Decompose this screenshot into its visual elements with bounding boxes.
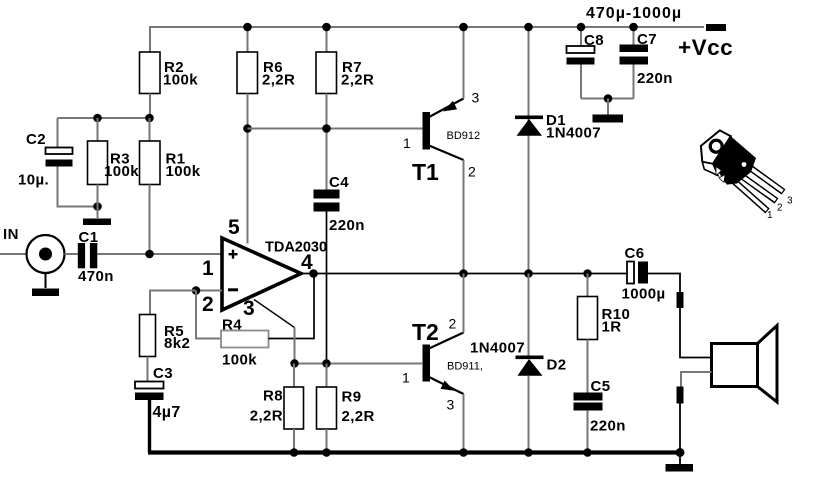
label T2 pin 1 <box>402 370 410 386</box>
svg-text:3: 3 <box>787 196 793 207</box>
transistor T2 BD911 <box>412 319 483 394</box>
node C1/R1 junction <box>145 250 154 259</box>
svg-text:C7: C7 <box>637 31 657 48</box>
svg-text:TDA2030: TDA2030 <box>265 240 327 256</box>
svg-text:2,2R: 2,2R <box>262 72 295 89</box>
svg-text:C2: C2 <box>26 131 46 148</box>
node C8/C7 ground junction <box>604 94 613 103</box>
svg-text:1N4007: 1N4007 <box>546 125 601 142</box>
capacitor C7 <box>620 27 673 99</box>
label +Vcc <box>678 35 733 60</box>
svg-text:1: 1 <box>202 257 214 280</box>
svg-text:T2: T2 <box>412 319 439 345</box>
svg-text:100k: 100k <box>222 352 257 369</box>
svg-text:2: 2 <box>468 164 476 180</box>
node T1 rail <box>459 23 468 32</box>
node R9 bottom rail <box>322 448 331 457</box>
node D1 output line <box>524 269 533 278</box>
svg-text:1N4007: 1N4007 <box>470 340 525 357</box>
svg-text:3: 3 <box>472 90 480 106</box>
svg-text:220n: 220n <box>637 70 673 87</box>
wire T2 base line <box>295 363 424 365</box>
label op-amp pin 3 <box>243 297 255 320</box>
wire C1 to op-amp pin1 <box>97 253 222 255</box>
label T2 pin 3 <box>447 397 455 413</box>
wire bias line y=118 <box>58 117 150 119</box>
capacitor C1 <box>78 229 114 285</box>
TO-220 package picture <box>701 130 784 211</box>
resistor R7 <box>316 27 374 94</box>
resistor R6 <box>237 27 295 94</box>
node R7 top rail <box>322 23 331 32</box>
svg-text:C1: C1 <box>79 229 99 246</box>
wire C3 to ground rail (thick) <box>148 400 151 453</box>
label op-amp pin 5 <box>228 216 240 239</box>
svg-text:1: 1 <box>402 370 410 386</box>
svg-text:R4: R4 <box>222 317 242 334</box>
label T2 pin 2 <box>449 316 457 332</box>
node speaker return rail <box>676 448 685 457</box>
svg-text:1R: 1R <box>602 319 622 336</box>
op-amp U1 TDA2030 <box>222 238 327 310</box>
wire C8/C7 common <box>581 98 634 100</box>
speaker LS1 <box>712 326 778 403</box>
node output at op-amp <box>309 269 318 278</box>
diode D1 1N4007 <box>515 112 601 142</box>
ground bar below R3 <box>83 219 111 226</box>
wire R4 right to output node <box>269 274 315 339</box>
svg-text:3: 3 <box>243 297 255 320</box>
svg-text:1: 1 <box>767 210 773 221</box>
wire D1 branch <box>528 27 530 274</box>
node R3 top <box>93 114 102 123</box>
node R7/C4 line on T1 base line <box>322 124 331 133</box>
node C5 rail <box>583 448 592 457</box>
capacitor C8 <box>567 27 604 99</box>
label package pin 3 <box>787 196 793 207</box>
label op-amp pin 1 <box>202 257 214 280</box>
node T1 base line left <box>243 124 252 133</box>
svg-text:D2: D2 <box>547 357 567 374</box>
wire R2 bottom <box>149 94 151 119</box>
speaker terminal bar bottom <box>677 387 684 404</box>
svg-text:R9: R9 <box>342 389 362 406</box>
svg-text:2,2R: 2,2R <box>342 408 375 425</box>
svg-text:T1: T1 <box>412 159 439 185</box>
label op-amp pin 4 <box>301 251 313 274</box>
wire ground stub R3 <box>97 207 99 219</box>
wire T1 base line <box>248 128 424 130</box>
svg-text:C6: C6 <box>625 245 645 262</box>
svg-text:C8: C8 <box>584 32 604 49</box>
resistor R8 <box>250 364 304 453</box>
svg-text:1: 1 <box>403 135 411 151</box>
svg-text:10µ.: 10µ. <box>18 172 49 189</box>
svg-text:2,2R: 2,2R <box>341 72 374 89</box>
node T2 emitter rail <box>459 448 468 457</box>
node D2 rail <box>524 448 533 457</box>
svg-text:100k: 100k <box>104 163 139 180</box>
node D1 rail <box>524 23 533 32</box>
label T1 pin 2 <box>468 164 476 180</box>
svg-text:4µ7: 4µ7 <box>153 404 181 421</box>
resistor R1 <box>140 118 201 254</box>
label T1 pin 3 <box>472 90 480 106</box>
node R8 top <box>290 359 298 367</box>
wire ground stub C8/C7 <box>607 99 609 115</box>
wire C2 branch <box>57 118 59 148</box>
label package pin 1 <box>767 210 773 221</box>
node R1/R2 junction <box>145 114 154 123</box>
resistor R2 <box>140 52 199 94</box>
wire pin2 input <box>196 290 222 292</box>
resistor R9 <box>317 364 375 453</box>
svg-text:2: 2 <box>202 293 214 316</box>
svg-text:1000µ: 1000µ <box>622 286 666 303</box>
svg-text:BD912: BD912 <box>447 130 481 142</box>
svg-text:220n: 220n <box>590 418 626 435</box>
wire C4 bottom crossing output to T2 base line <box>326 212 328 364</box>
wire input left <box>0 253 27 255</box>
input RCA connector <box>27 235 65 288</box>
wire speaker return <box>681 372 712 387</box>
resistor R4 <box>221 317 269 369</box>
wire pin2 down to R4 <box>196 291 221 339</box>
capacitor C4 <box>314 174 365 234</box>
capacitor C3 <box>135 365 181 421</box>
wire top +Vcc rail <box>150 27 704 52</box>
diode D2 1N4007 <box>470 274 566 453</box>
svg-text:IN: IN <box>3 226 19 243</box>
wire C2 bottom <box>58 167 98 207</box>
node C2/R3 bottom junction <box>93 202 102 211</box>
capacitor C5 <box>574 378 626 453</box>
ground bar below C8/C7 <box>593 115 624 123</box>
resistor R10 <box>578 274 631 393</box>
label IN <box>3 226 19 243</box>
svg-text:2,2R: 2,2R <box>250 408 283 425</box>
wire T2 emitter down to rail <box>463 394 465 453</box>
wire ground stub bottom right <box>679 453 681 465</box>
wire output line <box>301 273 627 275</box>
resistor R5 <box>140 315 191 383</box>
svg-text:BD911,: BD911, <box>447 361 483 373</box>
node pin2 junction <box>192 286 201 295</box>
wire pin3 diagonal <box>254 300 295 364</box>
wire T1 collector down to output <box>463 160 465 274</box>
svg-text:8k2: 8k2 <box>164 335 190 352</box>
label op-amp pin 2 <box>202 293 214 316</box>
wire speaker return to rail <box>679 404 681 453</box>
svg-text:R8: R8 <box>263 388 283 405</box>
svg-text:C4: C4 <box>329 174 349 191</box>
ground bar bottom right <box>666 464 694 472</box>
node R9 top <box>322 359 330 367</box>
capacitor C6 <box>622 245 666 303</box>
svg-text:220n: 220n <box>329 217 365 234</box>
label T1 pin 1 <box>403 135 411 151</box>
capacitor C2 <box>18 131 73 189</box>
wire C6 to speaker branch <box>648 274 680 293</box>
speaker terminal bar top <box>677 292 684 308</box>
resistor R3 <box>88 118 140 207</box>
node R8 bottom rail <box>290 448 299 457</box>
wire R6 bottom to op-amp pin5 <box>247 94 249 244</box>
svg-text:2: 2 <box>449 316 457 332</box>
wire R7 bottom <box>326 94 328 190</box>
wire T1 emitter up to rail <box>463 27 465 99</box>
svg-text:100k: 100k <box>166 163 201 180</box>
svg-text:C5: C5 <box>591 378 611 395</box>
svg-text:2: 2 <box>777 203 783 214</box>
svg-text:470µ-1000µ: 470µ-1000µ <box>586 5 682 22</box>
wire to speaker top <box>680 308 712 358</box>
ground bar below RCA <box>32 289 59 297</box>
label 470µ-1000µ <box>586 5 682 22</box>
wire T2 collector up to output <box>463 274 465 333</box>
node output/T1-T2 junction <box>459 269 468 278</box>
node R10 top <box>583 269 592 278</box>
label package pin 2 <box>777 203 783 214</box>
wire RCA to C1 <box>65 253 79 255</box>
transistor T1 BD912 <box>412 99 480 186</box>
svg-text:+Vcc: +Vcc <box>678 35 733 60</box>
svg-text:3: 3 <box>447 397 455 413</box>
node C8 rail <box>577 23 586 32</box>
+Vcc terminal bar <box>706 24 726 31</box>
svg-text:5: 5 <box>228 216 240 239</box>
svg-text:100k: 100k <box>163 72 198 89</box>
wire pin2 to R5 <box>150 291 196 316</box>
node C7 rail <box>629 23 638 32</box>
svg-text:470n: 470n <box>78 268 114 285</box>
node R6 top rail <box>243 23 252 32</box>
svg-text:C3: C3 <box>153 365 173 382</box>
wire bottom ground rail <box>148 450 680 454</box>
